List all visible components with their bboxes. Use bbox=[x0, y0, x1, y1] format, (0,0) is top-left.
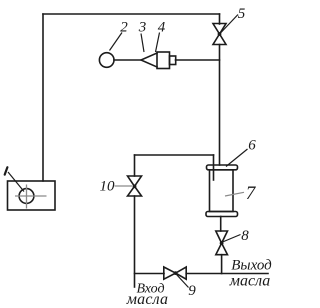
pump 1 crosshair bbox=[15, 185, 47, 209]
wire filter outlet down to valve 8 bbox=[220, 217, 222, 232]
wire valve5 down to filter 6 bbox=[219, 45, 221, 166]
svg-text:5: 5 bbox=[238, 6, 246, 22]
svg-text:10: 10 bbox=[100, 179, 116, 195]
valve 5 bbox=[213, 24, 226, 45]
leader line 4 bbox=[156, 33, 160, 53]
filter 6 top flange bbox=[207, 165, 238, 170]
leader line 9 bbox=[177, 275, 189, 288]
filter 7 body bbox=[210, 170, 234, 212]
gauge 2 (circle) bbox=[99, 53, 114, 68]
injector body 4 bbox=[157, 52, 170, 69]
wire bottom inlet horizontal bbox=[135, 273, 165, 275]
svg-text:8: 8 bbox=[241, 228, 249, 244]
leader line 1 bbox=[8, 172, 24, 192]
leader line 6 bbox=[226, 149, 248, 167]
valve 10 bbox=[128, 176, 142, 196]
wire gauge 2 to nozzle 3 bbox=[114, 59, 141, 61]
svg-text:4: 4 bbox=[158, 20, 166, 36]
svg-text:6: 6 bbox=[248, 138, 256, 154]
valve 8 bbox=[216, 231, 228, 255]
wire valve10 down to inlet line bbox=[134, 196, 136, 287]
wire injector outlet to vertical bbox=[176, 59, 220, 61]
svg-text:7: 7 bbox=[246, 183, 257, 204]
leader line 7 bbox=[225, 192, 244, 196]
svg-text:2: 2 bbox=[120, 20, 128, 36]
svg-text:масла: масла bbox=[126, 291, 168, 308]
wire branch down to valve 10 bbox=[134, 155, 136, 176]
wire branch down into filter bbox=[213, 155, 215, 180]
svg-text:масла: масла bbox=[229, 273, 270, 290]
leader line 2 bbox=[110, 33, 123, 51]
label 1 bbox=[5, 167, 8, 174]
svg-text:Выход: Выход bbox=[231, 258, 272, 274]
svg-text:3: 3 bbox=[138, 20, 147, 36]
wire top horizontal bbox=[43, 13, 220, 15]
pump 1 circle bbox=[19, 189, 34, 204]
wire branch horizontal to filter top bbox=[135, 154, 214, 156]
injector outlet stub bbox=[170, 56, 176, 65]
wire valve8 down to outlet line bbox=[221, 255, 223, 274]
nozzle 3 (cone) bbox=[141, 53, 157, 67]
pump 1 body bbox=[8, 181, 56, 210]
leader line 10 bbox=[115, 185, 133, 187]
filter bottom flange bbox=[206, 212, 238, 217]
wire valve5 inlet stub bbox=[219, 14, 221, 24]
leader line 3 bbox=[141, 34, 144, 53]
leader line 8 bbox=[223, 235, 241, 243]
wire bottom outlet horizontal bbox=[186, 273, 268, 275]
svg-text:9: 9 bbox=[188, 283, 196, 299]
valve 9 bbox=[164, 267, 186, 279]
leader line 5 bbox=[221, 15, 239, 34]
wire left vertical from top corner down to pump 1 bbox=[42, 14, 44, 181]
